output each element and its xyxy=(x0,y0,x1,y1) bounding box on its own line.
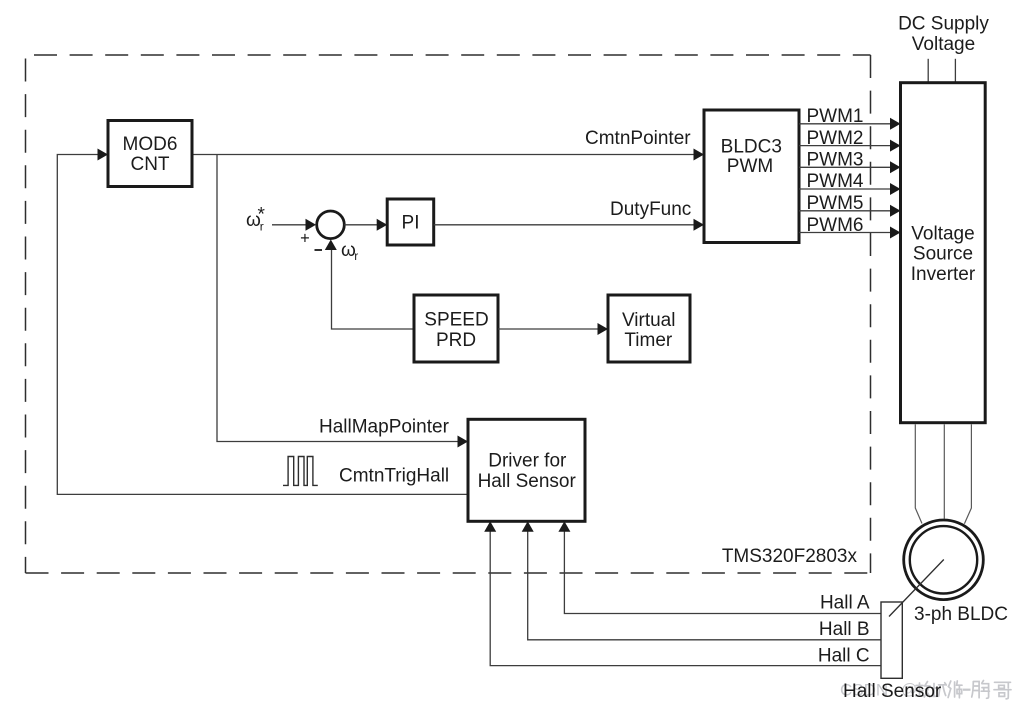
wire speed reference input xyxy=(272,224,308,226)
svg-text:SPEED: SPEED xyxy=(424,309,488,330)
watermark CJK char 1 xyxy=(916,682,931,698)
arrowhead into Virtual Timer xyxy=(598,323,609,335)
svg-text:r: r xyxy=(354,249,358,263)
dashed boundary right edge xyxy=(870,55,872,573)
arrowhead into PI xyxy=(377,219,388,231)
svg-text:+: + xyxy=(300,230,310,248)
shaft line from motor to hall sensor xyxy=(889,560,944,617)
wire PI to BLDC3 PWM (DutyFunc) xyxy=(434,224,695,226)
svg-text:PWM2: PWM2 xyxy=(807,128,864,149)
svg-text:PWM3: PWM3 xyxy=(807,150,864,171)
motor inner circle xyxy=(910,526,977,593)
svg-text:Virtual: Virtual xyxy=(622,310,676,331)
arrowhead into summing junction xyxy=(306,219,317,231)
arrowhead into MOD6 CNT xyxy=(98,149,109,161)
watermark CJK char 3 xyxy=(948,681,962,698)
svg-text:Hall C: Hall C xyxy=(818,645,870,666)
svg-text:3-ph BLDC: 3-ph BLDC xyxy=(914,604,1008,625)
block Driver for Hall Sensor xyxy=(468,419,585,521)
dashed boundary left edge xyxy=(25,55,27,573)
svg-text:Timer: Timer xyxy=(624,330,673,351)
watermark CJK char 2 xyxy=(931,683,946,697)
watermark hyphen xyxy=(963,689,971,691)
dashed boundary bottom edge xyxy=(26,572,871,574)
svg-text:PI: PI xyxy=(402,213,420,234)
block Voltage Source Inverter xyxy=(901,83,986,423)
svg-text:CmtnPointer: CmtnPointer xyxy=(585,128,691,149)
wire Hall A xyxy=(564,530,881,614)
wire DC supply left lead xyxy=(927,59,929,83)
arrowhead PWM6 xyxy=(890,227,901,239)
dashed boundary TMS320F2803x top edge xyxy=(26,54,871,56)
arrowhead CmtnPointer xyxy=(694,149,705,161)
svg-text:Driver for: Driver for xyxy=(488,451,567,472)
watermark CJK char 4 xyxy=(972,681,990,699)
svg-text:Hall A: Hall A xyxy=(820,593,870,614)
block Hall Sensor (small rectangle) xyxy=(881,602,902,678)
svg-text:*: * xyxy=(258,205,266,226)
wire speed feedback SPEED PRD to summing junction xyxy=(332,248,415,329)
svg-text:TMS320F2803x: TMS320F2803x xyxy=(722,546,858,567)
wire MOD6 CNT to BLDC3 PWM (CmtnPointer) xyxy=(192,154,695,156)
wire Hall C xyxy=(490,530,881,666)
wire PWM2 xyxy=(799,145,892,147)
svg-text:Inverter: Inverter xyxy=(911,264,976,285)
arrowhead HallMapPointer xyxy=(458,436,469,448)
svg-text:Voltage: Voltage xyxy=(911,223,974,244)
svg-text:PWM4: PWM4 xyxy=(807,171,864,192)
block Virtual Timer xyxy=(608,295,690,362)
svg-text:Hall Sensor: Hall Sensor xyxy=(843,681,942,702)
arrowhead PWM4 xyxy=(890,183,901,195)
svg-text:CmtnTrigHall: CmtnTrigHall xyxy=(339,466,449,487)
arrowhead Hall A into driver xyxy=(558,521,570,532)
arrowhead feedback up into summing junction xyxy=(325,240,337,251)
svg-text:HallMapPointer: HallMapPointer xyxy=(319,417,450,438)
block BLDC3 PWM xyxy=(704,110,799,243)
svg-text:Hall B: Hall B xyxy=(819,619,870,640)
wire Hall B xyxy=(528,530,881,640)
block SPEED PRD xyxy=(414,295,498,362)
arrowhead PWM5 xyxy=(890,205,901,217)
block MOD6 CNT xyxy=(108,121,192,187)
svg-text:PWM: PWM xyxy=(727,156,773,177)
wire PWM4 xyxy=(799,188,892,190)
watermark CJK char 5 xyxy=(994,682,1011,699)
wire DC supply right lead xyxy=(954,59,956,83)
minus sign xyxy=(315,249,323,251)
svg-text:Voltage: Voltage xyxy=(912,34,975,55)
arrowhead PWM1 xyxy=(890,118,901,130)
motor outer circle 3-ph BLDC xyxy=(904,520,984,600)
svg-text:DutyFunc: DutyFunc xyxy=(610,199,691,220)
summing junction circle xyxy=(317,211,345,239)
wire HallMapPointer branch xyxy=(217,155,460,442)
block PI xyxy=(387,199,434,245)
wire PWM6 xyxy=(799,232,892,234)
wire PWM5 xyxy=(799,210,892,212)
svg-text:PRD: PRD xyxy=(436,330,476,351)
svg-text:PWM1: PWM1 xyxy=(807,106,864,127)
wire CmtnTrigHall feedback (driver to MOD6 CNT) xyxy=(57,155,468,495)
svg-text:BLDC3: BLDC3 xyxy=(721,136,782,157)
wire inverter phase C xyxy=(964,424,971,524)
arrowhead PWM2 xyxy=(890,140,901,152)
svg-text:DC Supply: DC Supply xyxy=(898,14,989,35)
svg-text:Hall Sensor: Hall Sensor xyxy=(478,471,577,492)
wire summing junction to PI xyxy=(344,224,379,226)
pulse train symbol xyxy=(283,457,318,486)
wire SPEED PRD to Virtual Timer xyxy=(498,328,599,330)
arrowhead PWM3 xyxy=(890,161,901,173)
wire inverter phase B xyxy=(943,424,945,519)
svg-text:PWM5: PWM5 xyxy=(807,193,864,214)
svg-text:Source: Source xyxy=(913,244,973,265)
arrowhead Hall C into driver xyxy=(484,521,496,532)
wire PWM1 xyxy=(799,123,892,125)
svg-text:MOD6: MOD6 xyxy=(123,134,178,155)
arrowhead Hall B into driver xyxy=(522,521,534,532)
arrowhead DutyFunc xyxy=(694,219,705,231)
wire PWM3 xyxy=(799,166,892,168)
svg-text:CNT: CNT xyxy=(130,154,169,175)
wire inverter phase A xyxy=(915,424,922,523)
svg-text:PWM6: PWM6 xyxy=(807,215,864,236)
